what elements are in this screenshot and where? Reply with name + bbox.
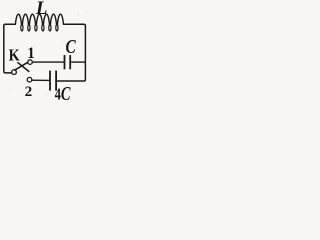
svg-text:2: 2	[25, 83, 33, 100]
wire: capacitor C to right rail	[71, 61, 85, 63]
wire: top-right segment and right rail	[57, 24, 85, 81]
contact 1 circle	[28, 60, 33, 65]
capacitor C left plate	[64, 55, 66, 69]
switch arm (blade from pole toward contact 1)	[15, 62, 28, 70]
capacitor C right plate	[69, 55, 71, 69]
wire: contact 1 to capacitor C	[32, 61, 63, 63]
contact 2 circle	[27, 77, 32, 82]
scan speckles	[6, 11, 88, 96]
svg-text:C: C	[66, 37, 77, 58]
inductor L	[15, 14, 63, 24]
svg-text:L: L	[35, 0, 48, 19]
wire: top-left segment and left rail down to switch	[4, 24, 15, 73]
wire: contact 2 to capacitor 4C	[32, 79, 50, 81]
capacitor 4C right plate	[55, 71, 57, 91]
capacitor 4C left plate	[49, 71, 51, 91]
switch handle cross stroke	[18, 63, 29, 72]
svg-text:C: C	[61, 84, 71, 103]
svg-text:1: 1	[27, 45, 35, 62]
switch K pole circle	[12, 70, 17, 75]
svg-text:K: K	[9, 45, 20, 64]
inductor loop tails below wire	[21, 25, 58, 31]
